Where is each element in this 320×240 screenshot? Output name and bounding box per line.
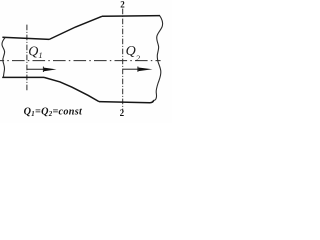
duct top wall, diverging diagonal: [49, 16, 102, 39]
flow arrow shaft at section 2: [123, 68, 139, 70]
svg-text:2: 2: [120, 0, 125, 9]
duct top wall, wide part: [102, 15, 160, 18]
duct bottom wall, narrow part: [2, 76, 44, 78]
flow arrow crossbar at section 1: [42, 67, 44, 72]
section line 2 (right vertical dash-dot): [122, 9, 124, 111]
flow arrow crossbar at section 2: [137, 67, 139, 72]
duct top wall, narrow part: [2, 37, 49, 39]
svg-text:2: 2: [120, 108, 125, 118]
section line 1 (left vertical dash-dot): [26, 25, 28, 92]
flow arrow shaft at section 1: [27, 68, 45, 70]
centerline (horizontal dash-dot axis): [0, 60, 161, 62]
break line, left duct end: [2, 37, 5, 77]
flow arrow head at section 1: [44, 68, 57, 72]
duct bottom wall, diverging diagonal: [44, 77, 99, 101]
break line, right duct end: [154, 16, 163, 100]
flow arrow head at section 2: [138, 68, 152, 72]
duct bottom wall, wide part: [99, 100, 154, 103]
